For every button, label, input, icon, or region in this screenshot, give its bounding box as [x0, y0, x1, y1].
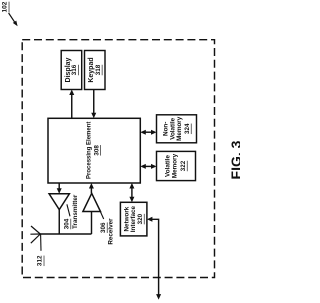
wire PE to Non-Volatile Memory (double arrow): [142, 131, 155, 133]
Non-Volatile Memory block 324: [157, 115, 197, 143]
wire Network Interface to external network: [149, 219, 159, 297]
Keypad block 318: [85, 51, 106, 90]
receiver triangle 306: [83, 193, 101, 211]
wire PE to Network Interface (double arrow): [131, 185, 133, 201]
svg-text:318: 318: [95, 64, 102, 75]
Volatile Memory block 322: [157, 151, 196, 180]
svg-text:308: 308: [93, 145, 100, 156]
leader 312: [40, 234, 42, 251]
svg-text:102: 102: [2, 1, 9, 12]
wire Receiver to PE (arrow up): [90, 186, 92, 194]
svg-text:Memory: Memory: [172, 153, 179, 178]
transmitter triangle 304: [49, 194, 69, 210]
svg-text:Transmitter: Transmitter: [72, 194, 79, 229]
svg-text:324: 324: [184, 123, 191, 134]
svg-text:320: 320: [137, 213, 144, 224]
wire Keypad to Processing Element (arrow down): [93, 90, 95, 116]
svg-text:FIG. 3: FIG. 3: [228, 140, 240, 179]
wire leader arrow from 102 to dashed box: [9, 13, 16, 23]
Network Interface block 320: [120, 202, 146, 236]
antenna bus wire: [40, 233, 91, 235]
svg-text:Memory: Memory: [176, 116, 183, 141]
svg-text:316: 316: [71, 64, 78, 75]
dashed device boundary box 102: [22, 40, 214, 278]
wire transmitter apex to antenna bus: [58, 210, 60, 234]
wire PE to Volatile Memory (double arrow): [142, 165, 155, 167]
svg-text:Volatile: Volatile: [165, 155, 172, 177]
wire Processing Element to Display (arrow up): [71, 92, 73, 118]
leader 306: [101, 212, 104, 219]
Processing Element block 308: [48, 118, 140, 183]
svg-text:304: 304: [64, 218, 71, 229]
svg-text:322: 322: [180, 160, 187, 171]
svg-text:306: 306: [100, 222, 107, 233]
wire receiver base to antenna bus: [91, 212, 93, 235]
Display block 316: [61, 51, 81, 90]
svg-text:Receiver: Receiver: [108, 218, 115, 245]
wire PE to Transmitter (arrow down): [58, 183, 60, 191]
svg-text:312: 312: [37, 255, 44, 266]
leader 304: [67, 204, 70, 216]
antenna 312: [31, 226, 40, 234]
svg-text:Processing Element: Processing Element: [86, 122, 92, 179]
